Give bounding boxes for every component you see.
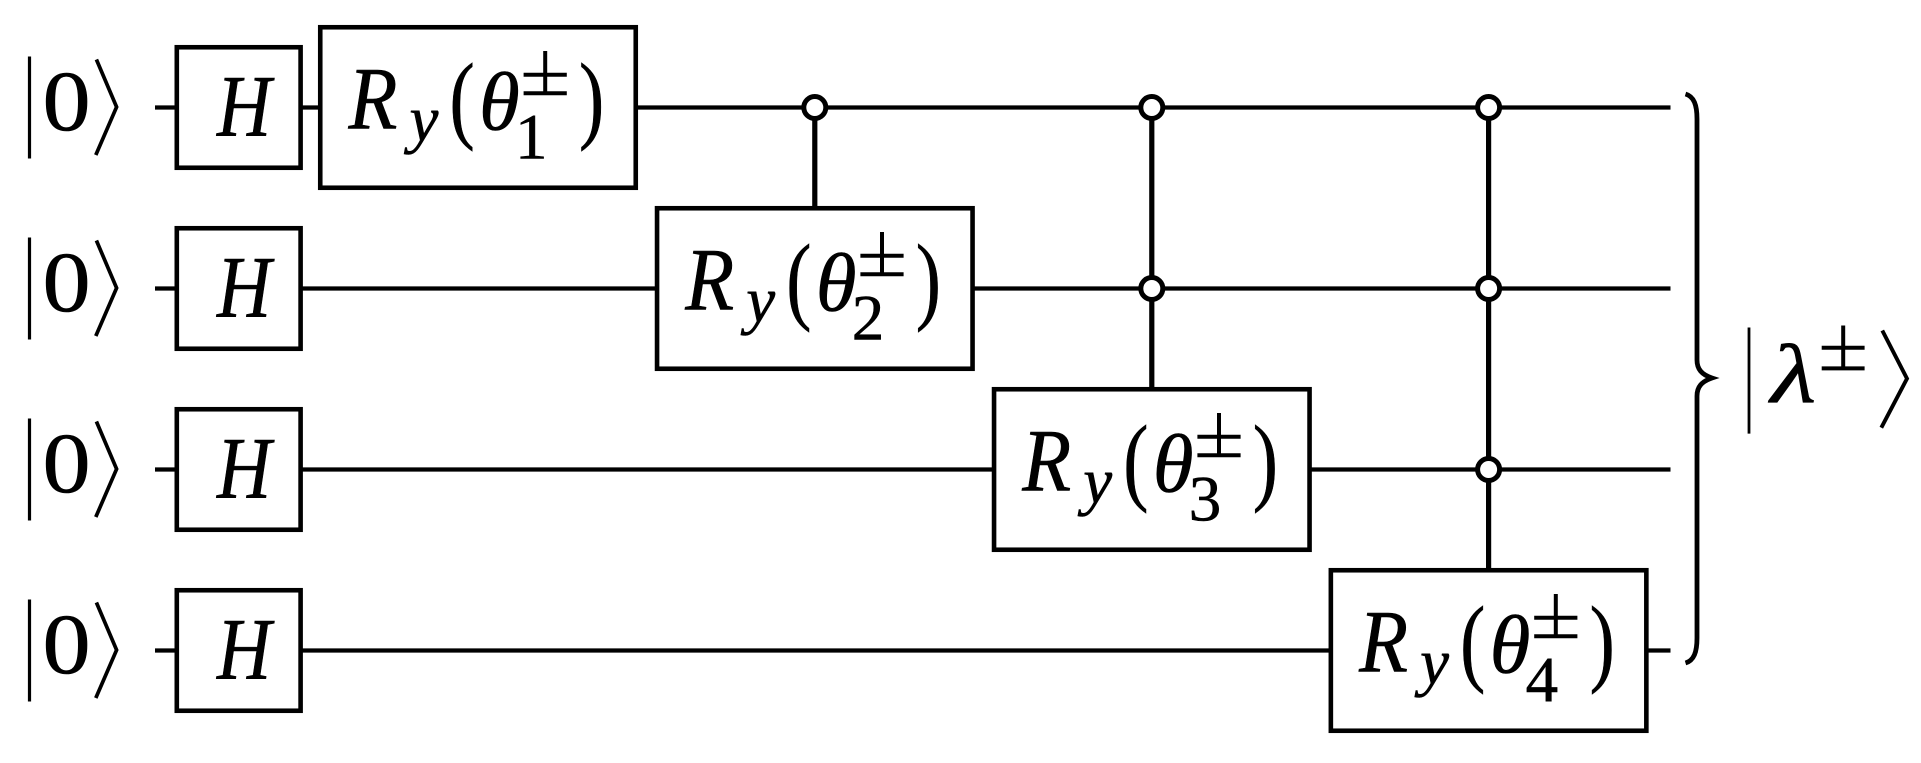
wire qubit 1 (155, 105, 1671, 109)
svg-text:(: ( (786, 225, 811, 333)
svg-text:y: y (1414, 627, 1449, 699)
svg-text:0: 0 (43, 597, 91, 692)
svg-text:R: R (684, 232, 734, 330)
svg-text:y: y (404, 84, 439, 156)
svg-text:R: R (348, 51, 398, 149)
ket |0> qubit 2 (30, 235, 117, 340)
wire control column to Ry3 (1149, 108, 1154, 396)
svg-text:H: H (216, 238, 275, 336)
control dot 6 (1478, 459, 1500, 481)
svg-text:2: 2 (852, 283, 885, 355)
svg-text:H: H (216, 57, 275, 155)
svg-text:): ) (579, 44, 604, 152)
svg-text:(: ( (450, 44, 475, 152)
control dot 3 (1141, 278, 1163, 300)
gate Ry(theta2) qubit 2 (657, 208, 973, 369)
gate Ry(theta4) qubit 4 (1331, 570, 1647, 731)
svg-text:θ: θ (1153, 418, 1194, 510)
wire control column to Ry2 (812, 108, 817, 215)
svg-text:λ: λ (1767, 327, 1816, 421)
svg-text:4: 4 (1526, 645, 1559, 717)
svg-text:θ: θ (816, 237, 857, 329)
ket |0> qubit 1 (30, 54, 117, 159)
gate H qubit 3 (177, 409, 301, 530)
wire qubit 3 (155, 467, 1671, 471)
svg-text:θ: θ (1490, 599, 1531, 691)
svg-text:): ) (916, 225, 941, 333)
svg-text:1: 1 (515, 102, 548, 174)
svg-text:3: 3 (1189, 464, 1222, 536)
control dot 1 (804, 97, 826, 119)
wire qubit 2 (155, 286, 1671, 290)
svg-text:y: y (740, 265, 775, 337)
gate H qubit 1 (177, 47, 301, 168)
svg-text:): ) (1253, 406, 1278, 514)
svg-text:θ: θ (479, 56, 520, 148)
wire control column to Ry4 (1486, 108, 1491, 577)
control dot 4 (1478, 97, 1500, 119)
gate Ry(theta1) qubit 1 (320, 27, 636, 188)
gate Ry(theta3) qubit 3 (994, 389, 1310, 550)
svg-text:0: 0 (43, 54, 91, 149)
svg-text:H: H (216, 419, 275, 517)
svg-text:): ) (1590, 587, 1615, 695)
svg-text:(: ( (1123, 406, 1148, 514)
gate H qubit 4 (177, 590, 301, 711)
svg-text:(: ( (1460, 587, 1485, 695)
svg-text:R: R (1021, 413, 1071, 511)
svg-text:H: H (216, 600, 275, 698)
svg-text:0: 0 (43, 235, 91, 330)
control dot 5 (1478, 278, 1500, 300)
wire qubit 4 (155, 648, 1671, 652)
svg-text:R: R (1358, 594, 1408, 692)
gate H qubit 2 (177, 228, 301, 349)
svg-text:0: 0 (43, 416, 91, 511)
ket |lambda pm> output (1749, 326, 1907, 434)
ket |0> qubit 4 (30, 597, 117, 702)
ket |0> qubit 3 (30, 416, 117, 521)
control dot 2 (1141, 97, 1163, 119)
brace (1686, 94, 1713, 663)
svg-text:y: y (1077, 446, 1112, 518)
